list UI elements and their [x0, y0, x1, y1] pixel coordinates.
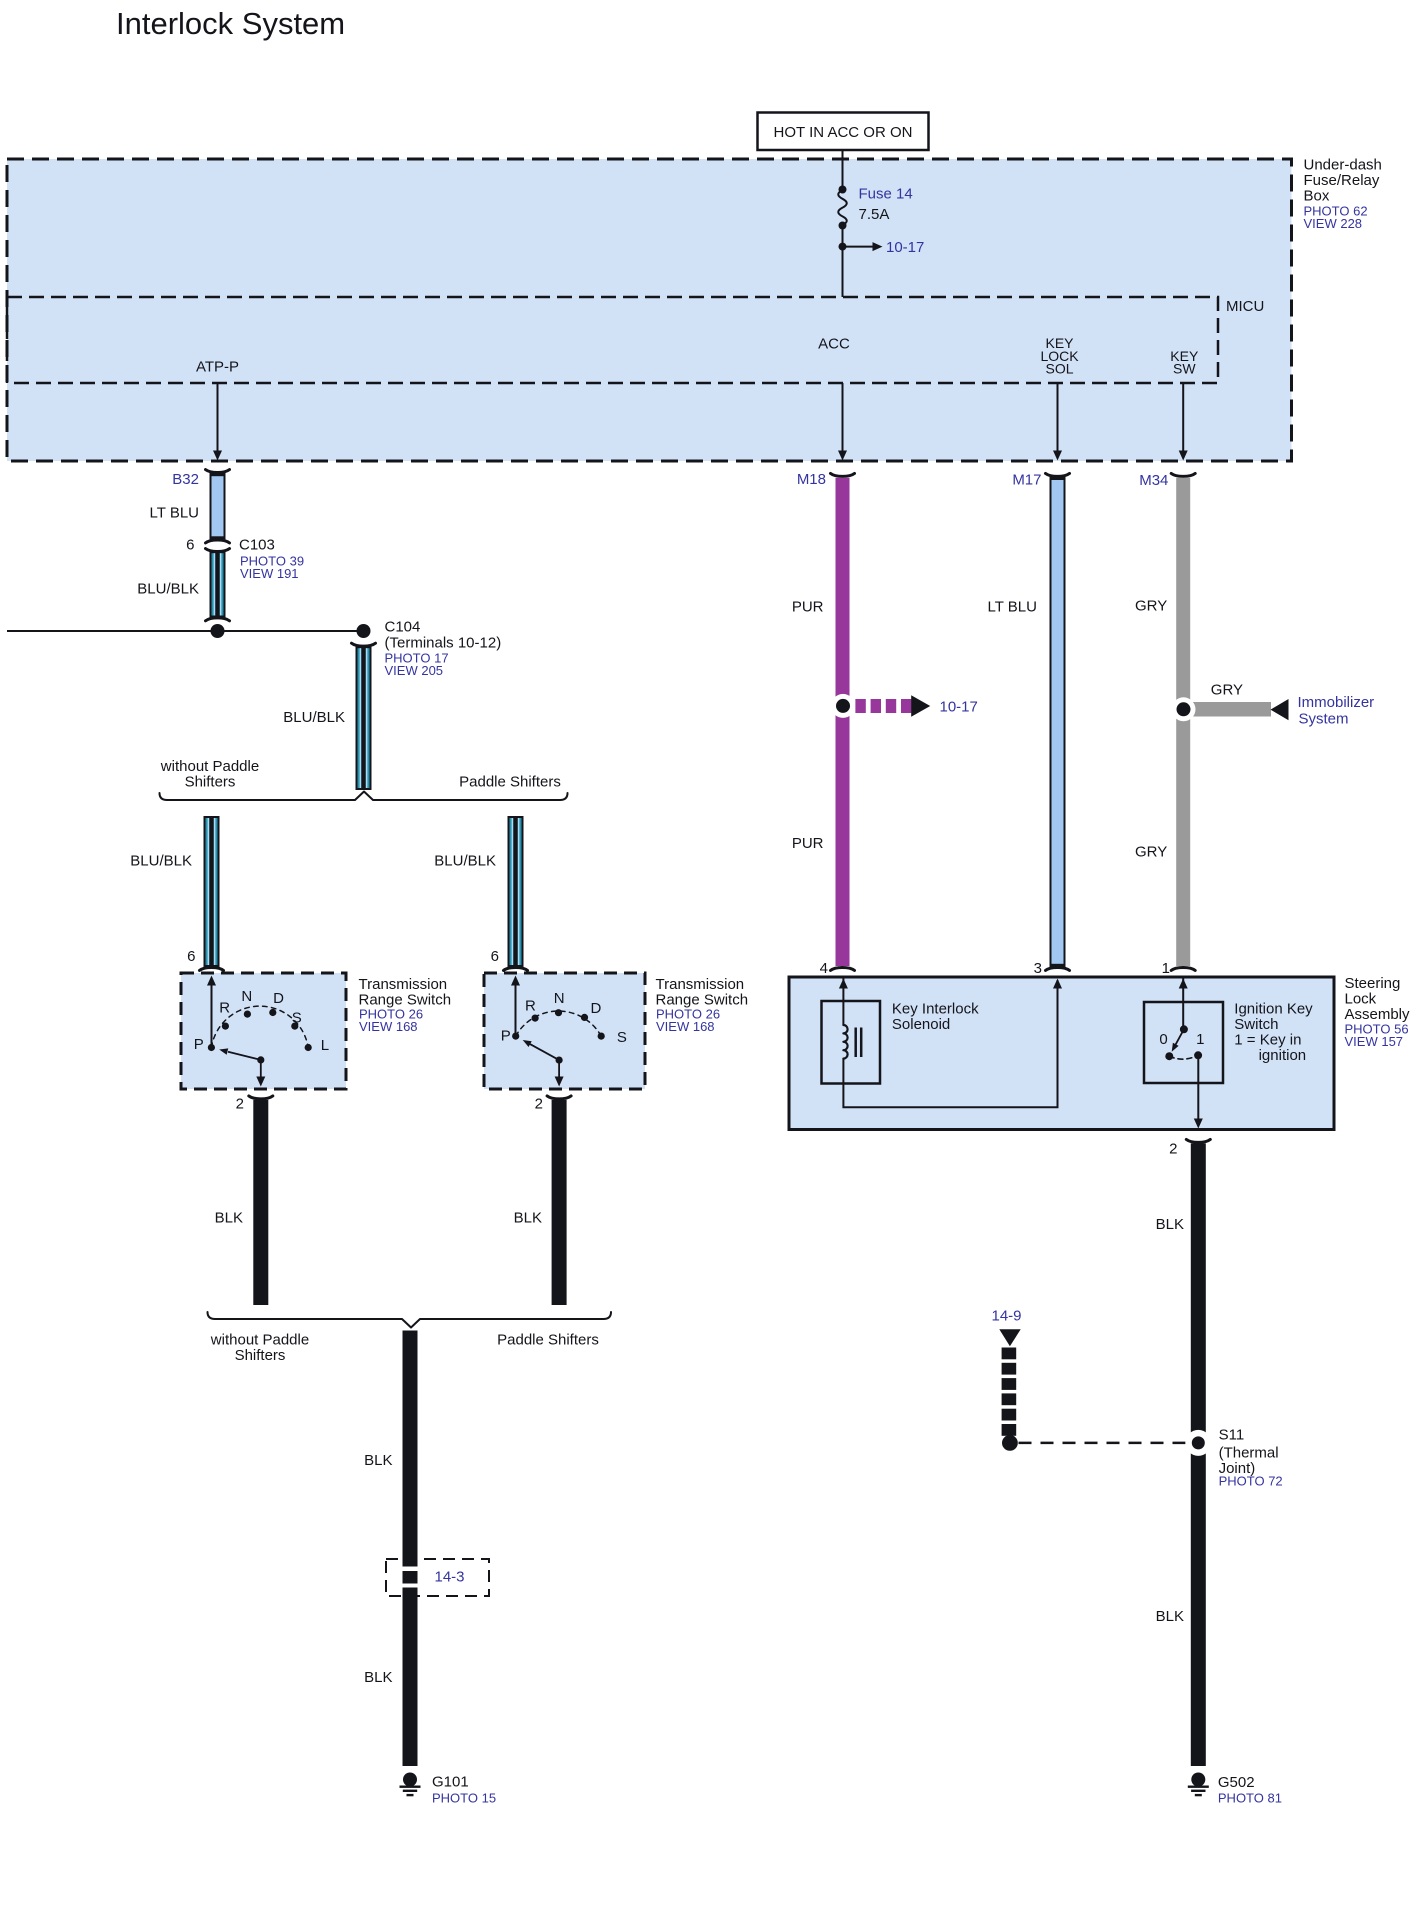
TRS2 position letters [501, 990, 627, 1046]
connector TRS1 output [249, 1096, 273, 1099]
svg-text:S: S [292, 1010, 302, 1027]
svg-text:7.5A: 7.5A [859, 206, 890, 223]
svg-text:B32: B32 [172, 471, 199, 488]
transmission range switch 2 box [484, 973, 645, 1089]
TRS2 entry arrow [515, 978, 517, 1036]
svg-text:Box: Box [1304, 188, 1330, 205]
svg-text:PHOTO 15: PHOTO 15 [432, 1791, 496, 1806]
wire BLU/BLK left branch [130, 817, 218, 966]
connector M17 [1012, 472, 1069, 489]
wire BLU/BLK right branch [434, 817, 522, 966]
svg-text:Transmission: Transmission [359, 976, 448, 993]
svg-text:6: 6 [491, 948, 499, 965]
wire BLU/BLK C104 down to split [283, 647, 370, 789]
svg-text:MICU: MICU [1226, 298, 1264, 315]
svg-text:VIEW 205: VIEW 205 [385, 663, 444, 678]
wire KEY SW to M34 [1182, 383, 1184, 458]
connector ignition output [1186, 1139, 1210, 1142]
svg-text:14-9: 14-9 [992, 1308, 1022, 1325]
svg-text:1: 1 [1196, 1031, 1204, 1048]
svg-text:Paddle Shifters: Paddle Shifters [497, 1332, 599, 1349]
wire BLK merged lower [364, 1588, 417, 1767]
wire fuse to MICU [842, 226, 844, 298]
connector C104 [352, 619, 502, 679]
connector right TRS entry [504, 967, 528, 970]
svg-text:ignition: ignition [1259, 1047, 1307, 1064]
connector M18 lower end [831, 967, 855, 970]
svg-text:2: 2 [535, 1096, 543, 1113]
svg-text:R: R [525, 998, 536, 1015]
svg-text:Steering: Steering [1345, 975, 1401, 992]
svg-text:Ignition Key: Ignition Key [1234, 1001, 1313, 1018]
svg-text:BLU/BLK: BLU/BLK [130, 853, 192, 870]
svg-text:0: 0 [1159, 1031, 1167, 1048]
label Under-dash Fuse/Relay Box [1304, 157, 1382, 232]
branch arrow to 10-17 (PUR) [831, 694, 978, 718]
svg-text:4: 4 [820, 960, 828, 977]
svg-text:10-17: 10-17 [886, 239, 924, 256]
svg-text:without Paddle: without Paddle [210, 1332, 309, 1349]
svg-text:PHOTO 81: PHOTO 81 [1218, 1791, 1282, 1806]
svg-text:BLK: BLK [1156, 1608, 1184, 1625]
svg-text:VIEW 191: VIEW 191 [240, 566, 299, 581]
svg-text:GRY: GRY [1135, 597, 1167, 614]
connector M34 lower end [1171, 967, 1195, 970]
ignition key switch labels [1234, 1001, 1313, 1065]
svg-text:D: D [590, 1000, 601, 1017]
steering lock assembly labels [1345, 975, 1411, 1049]
svg-text:Fuse/Relay: Fuse/Relay [1304, 172, 1380, 189]
svg-text:Assembly: Assembly [1345, 1006, 1411, 1023]
steering lock assembly box [789, 977, 1334, 1130]
connector C103 [206, 537, 305, 582]
svg-text:ACC: ACC [818, 335, 850, 352]
svg-text:N: N [554, 990, 565, 1007]
connector C103 lower end [206, 618, 230, 621]
connector M18 [797, 471, 855, 488]
svg-text:PUR: PUR [792, 599, 824, 616]
svg-text:Transmission: Transmission [656, 976, 745, 993]
split brace paddle shifters [160, 758, 568, 800]
svg-text:1 = Key in: 1 = Key in [1234, 1032, 1301, 1049]
svg-text:6: 6 [187, 948, 195, 965]
svg-text:G502: G502 [1218, 1774, 1255, 1791]
TRS1 labels [359, 976, 452, 1034]
svg-text:VIEW 228: VIEW 228 [1304, 216, 1363, 231]
svg-text:R: R [219, 1000, 230, 1017]
TRS1 contact dots and arc [208, 1006, 312, 1051]
svg-text:10-17: 10-17 [940, 698, 978, 715]
wire LT BLU M17 down [988, 478, 1066, 966]
svg-text:BLU/BLK: BLU/BLK [283, 709, 345, 726]
wire horizontal bus to left edge [7, 630, 364, 632]
svg-text:SW: SW [1173, 360, 1196, 376]
node KEY LOCK SOL [1040, 335, 1079, 376]
connector B32 [172, 470, 229, 488]
merge brace paddle shifters [208, 1312, 612, 1364]
svg-text:GRY: GRY [1211, 682, 1243, 699]
ground G502 [1188, 1773, 1282, 1806]
svg-text:ATP-P: ATP-P [196, 359, 239, 376]
svg-text:M18: M18 [797, 471, 826, 488]
wire LT BLU B32 to C103 [150, 474, 225, 539]
power tag HOT IN ACC OR ON [758, 113, 929, 151]
svg-text:3: 3 [1034, 960, 1042, 977]
svg-text:Key Interlock: Key Interlock [892, 1001, 979, 1018]
svg-text:(Terminals 10-12): (Terminals 10-12) [385, 635, 502, 652]
svg-text:P: P [194, 1036, 204, 1053]
connector M17 lower end [1046, 967, 1070, 970]
svg-text:Under-dash: Under-dash [1304, 157, 1382, 174]
wire BLU/BLK C103 to junction [137, 552, 224, 616]
svg-text:D: D [273, 990, 284, 1007]
wire PUR M18 down [792, 478, 850, 966]
svg-text:LT BLU: LT BLU [150, 505, 199, 522]
svg-text:Immobilizer: Immobilizer [1298, 694, 1375, 711]
svg-text:without Paddle: without Paddle [160, 758, 259, 775]
svg-text:S: S [617, 1029, 627, 1046]
TRS2 labels [656, 976, 749, 1034]
junction dot left [211, 624, 225, 638]
wire ATP-P to B32 [217, 383, 219, 458]
svg-text:Switch: Switch [1234, 1016, 1278, 1033]
svg-text:HOT IN ACC OR ON: HOT IN ACC OR ON [774, 124, 913, 141]
svg-text:BLK: BLK [215, 1210, 243, 1227]
svg-text:System: System [1299, 711, 1349, 728]
wire ignition switch to pin 2 [1194, 1055, 1203, 1128]
TRS1 switch arm [219, 1048, 265, 1086]
thermal joint S11 [1185, 1426, 1282, 1488]
branch arrow to 10-17 (fuse box) [839, 239, 925, 256]
node KEY SW [1170, 348, 1199, 377]
svg-text:M34: M34 [1139, 472, 1168, 489]
svg-text:LT BLU: LT BLU [988, 599, 1037, 616]
key interlock solenoid [822, 978, 980, 1084]
wire ACC to M18 [842, 383, 844, 458]
svg-text:14-3: 14-3 [434, 1569, 464, 1586]
transmission range switch 1 box [181, 973, 346, 1089]
svg-text:BLK: BLK [1156, 1216, 1184, 1233]
connector left TRS entry [200, 967, 224, 970]
svg-text:Paddle Shifters: Paddle Shifters [459, 774, 561, 791]
svg-text:M17: M17 [1012, 472, 1041, 489]
svg-text:Solenoid: Solenoid [892, 1016, 950, 1033]
svg-text:P: P [501, 1028, 511, 1045]
svg-text:2: 2 [236, 1096, 244, 1113]
connector M34 [1139, 472, 1195, 489]
svg-text:PHOTO 72: PHOTO 72 [1219, 1473, 1283, 1488]
svg-text:6: 6 [186, 537, 194, 554]
svg-text:Lock: Lock [1345, 991, 1377, 1008]
svg-text:C103: C103 [239, 537, 275, 554]
inline connector 14-3 [386, 1559, 489, 1596]
wire GRY M34 down [1135, 478, 1190, 966]
fuse Fuse 14 7.5A [838, 186, 912, 230]
TRS2 switch arm [523, 1040, 564, 1087]
svg-text:BLU/BLK: BLU/BLK [434, 853, 496, 870]
junction dot C104 [357, 624, 371, 638]
svg-text:VIEW 168: VIEW 168 [359, 1019, 418, 1034]
wire BLK TRS1 down [215, 1100, 269, 1305]
svg-text:Fuse 14: Fuse 14 [859, 186, 913, 203]
svg-text:BLU/BLK: BLU/BLK [137, 581, 199, 598]
ignition key switch [1144, 978, 1223, 1084]
svg-text:G101: G101 [432, 1774, 469, 1791]
wire BLK ignition down [1156, 1143, 1206, 1766]
svg-text:1: 1 [1162, 960, 1170, 977]
svg-text:SOL: SOL [1045, 360, 1073, 376]
solenoid return wiring to pin 3 [843, 979, 1062, 1108]
wire BLK merged upper [364, 1331, 417, 1567]
connector TRS2 output [547, 1096, 571, 1099]
svg-text:VIEW 168: VIEW 168 [656, 1019, 715, 1034]
svg-text:Shifters: Shifters [235, 1347, 286, 1364]
svg-text:(Thermal: (Thermal [1219, 1444, 1279, 1461]
svg-text:BLK: BLK [514, 1210, 542, 1227]
svg-text:L: L [321, 1037, 329, 1054]
wire HOT box to fuse [842, 150, 844, 190]
svg-text:PUR: PUR [792, 835, 824, 852]
ground G101 [400, 1773, 497, 1806]
MICU box [7, 297, 1218, 383]
branch GRY to immobilizer system [1172, 682, 1375, 728]
svg-text:N: N [241, 988, 252, 1005]
TRS1 position letters [194, 988, 329, 1054]
svg-text:BLK: BLK [364, 1669, 392, 1686]
svg-text:S11: S11 [1219, 1426, 1245, 1443]
svg-text:BLK: BLK [364, 1452, 392, 1469]
svg-text:GRY: GRY [1135, 843, 1167, 860]
TRS2 contact dots and arc [512, 1009, 605, 1040]
svg-text:2: 2 [1169, 1141, 1177, 1158]
TRS1 entry arrow [211, 978, 213, 1048]
wire BLK TRS2 down [514, 1100, 567, 1305]
wire KEY LOCK SOL to M17 [1057, 383, 1059, 458]
link 14-9 dashed [992, 1308, 1192, 1451]
svg-text:Interlock System: Interlock System [116, 6, 345, 41]
svg-text:Shifters: Shifters [185, 774, 236, 791]
under-dash fuse/relay box [7, 159, 1292, 461]
svg-text:C104: C104 [385, 619, 421, 636]
svg-text:VIEW 157: VIEW 157 [1345, 1034, 1404, 1049]
